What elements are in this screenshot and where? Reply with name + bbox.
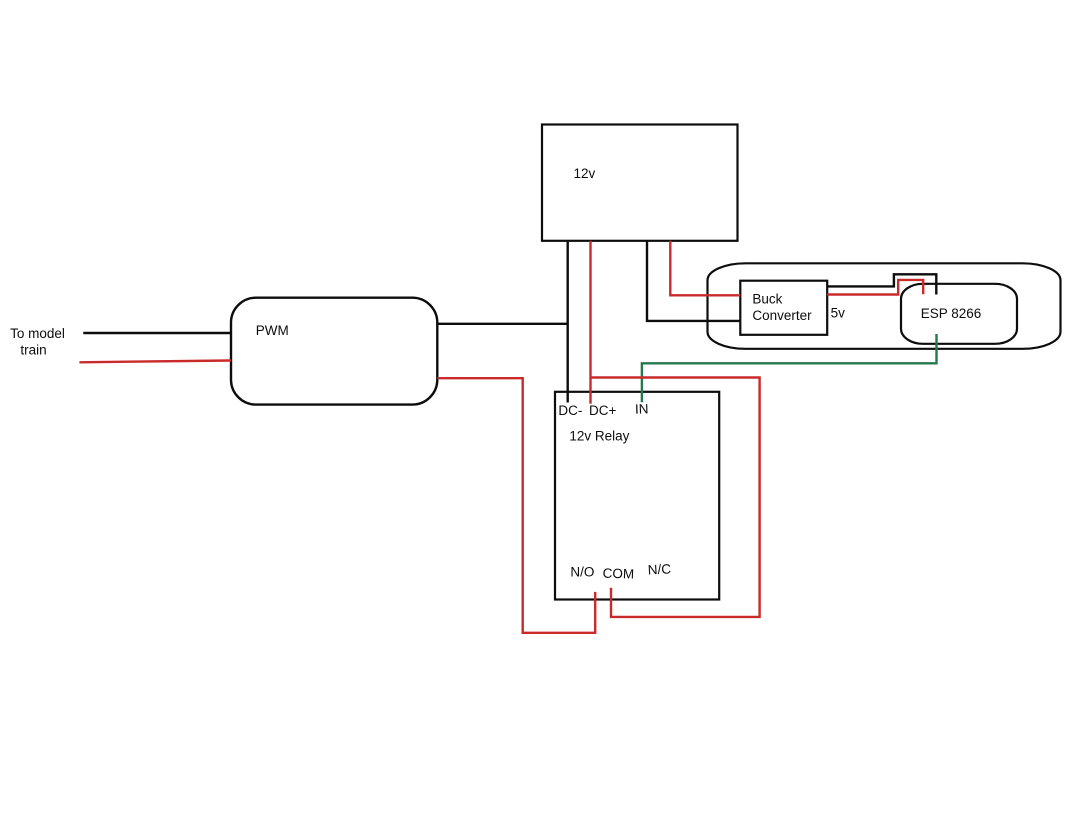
svg-text:To model: To model (10, 326, 65, 341)
wire red: 12v bottom to relay DC+ (589, 241, 591, 404)
svg-text:COM: COM (602, 566, 634, 582)
wire red: PWM right to relay N/O (437, 378, 595, 633)
svg-text:IN: IN (635, 401, 649, 416)
svg-text:N/O: N/O (570, 565, 594, 580)
wire green: ESP to relay IN (642, 334, 937, 402)
svg-text:12v: 12v (574, 166, 596, 181)
wire black: model train to PWM left (83, 332, 231, 334)
wire black: PWM right to relay DC- vertical (437, 323, 567, 325)
svg-text:PWM: PWM (256, 323, 289, 338)
wire red: model train to PWM left (79, 361, 231, 363)
wire red: 12v bottom to buck converter (670, 241, 740, 295)
svg-text:DC-: DC- (558, 403, 582, 418)
wire red: buck converter to ESP (827, 280, 923, 295)
PWM controller box (231, 298, 437, 405)
svg-text:N/C: N/C (647, 561, 671, 577)
wire black: buck converter to ESP (827, 274, 936, 294)
ESP 8266 module box (901, 284, 1017, 344)
svg-text:Converter: Converter (752, 308, 812, 323)
wire black: 12v bottom to buck converter (647, 241, 740, 321)
enclosure around buck converter and ESP (708, 263, 1061, 349)
svg-text:12v Relay: 12v Relay (569, 429, 629, 444)
wire red: DC+ branch to relay COM (591, 378, 760, 617)
svg-text:Buck: Buck (752, 292, 782, 307)
buck converter box (740, 281, 827, 335)
svg-text:ESP 8266: ESP 8266 (921, 306, 982, 321)
svg-text:DC+: DC+ (589, 403, 616, 418)
power supply 12v box (542, 125, 738, 241)
relay 12v box (555, 392, 719, 600)
svg-text:5v: 5v (831, 306, 846, 321)
wire black: 12v bottom to relay DC- (567, 241, 569, 403)
svg-text:train: train (20, 342, 46, 357)
